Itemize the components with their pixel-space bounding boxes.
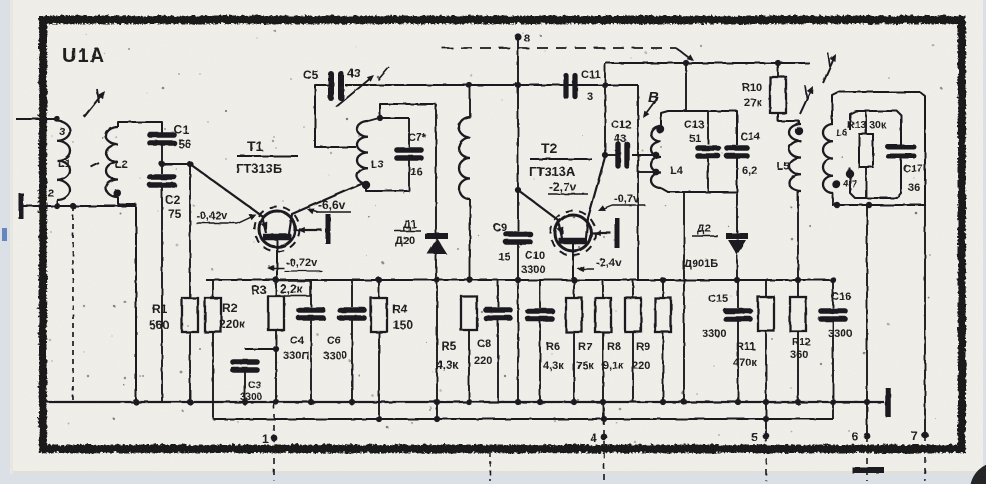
inductor L6 <box>823 124 833 193</box>
wire base slant T1 <box>190 164 266 233</box>
node C3 junction <box>273 346 279 352</box>
polarity dot L5 <box>795 127 803 135</box>
node L3 top <box>377 115 383 121</box>
node R10 top <box>775 60 781 66</box>
wire C5 branch <box>315 85 356 147</box>
wire tank3 inner <box>850 111 901 145</box>
wire emitter T2 <box>592 232 611 234</box>
inductor L2 <box>106 127 118 197</box>
wire tank3 down <box>866 205 868 436</box>
resistor R9 <box>662 280 664 298</box>
wire base slant T2 <box>518 190 562 238</box>
resistor R7 <box>602 280 604 298</box>
wire tank3 frame <box>832 92 925 205</box>
diode D1 <box>425 233 448 239</box>
capacitor C6 <box>351 280 353 307</box>
wire mid rail left <box>206 279 833 281</box>
rail B junction dots <box>376 416 769 422</box>
blue mark on left margin <box>2 228 7 241</box>
node R4 top <box>376 277 382 283</box>
wire input bottom <box>21 205 136 207</box>
tuning arrow L6 <box>823 56 835 83</box>
wire x638 vertical <box>637 85 639 280</box>
wire main rail <box>345 84 638 86</box>
pin 1 <box>271 435 278 442</box>
capacitor C3 <box>233 359 257 365</box>
node L4 mid <box>653 152 660 159</box>
paper edge shading left <box>10 0 13 474</box>
capacitor C12 <box>605 154 616 156</box>
capacitor C11 <box>563 76 568 97</box>
resistor R12 <box>797 191 799 297</box>
ground rail B <box>213 418 833 420</box>
resistor R3 <box>275 280 277 296</box>
wire collector slant T2 <box>586 157 605 238</box>
node tank2 Bplus <box>683 60 689 66</box>
wire tank1 bottom <box>366 185 409 191</box>
wire tank1 top <box>380 104 436 118</box>
polarity dot L2 <box>113 189 121 197</box>
tick between L1 L2 <box>91 163 99 167</box>
tuning arrow L5 <box>800 88 812 114</box>
resistor R11 <box>765 280 767 297</box>
ground bar right <box>885 388 891 417</box>
node x605 rail <box>602 82 608 88</box>
capacitor C9 <box>506 231 530 237</box>
capacitor C16 <box>832 280 834 308</box>
emitter bar T2 <box>615 218 620 248</box>
node L1 bottom <box>54 203 60 209</box>
wire R7 to rail B <box>603 402 604 419</box>
wire tank2 Bplus <box>685 63 687 111</box>
diode D2 <box>726 233 748 239</box>
capacitor C14 <box>727 145 747 151</box>
wire D1 vertical <box>435 104 437 233</box>
transistor T1 <box>259 211 295 247</box>
resistor R5 <box>461 296 477 330</box>
transistor T2 <box>555 215 591 251</box>
node L5 chain <box>795 277 801 283</box>
wire C7 top <box>380 117 409 119</box>
node R9 top <box>660 277 666 283</box>
wire top rail <box>605 62 810 64</box>
node R3 top <box>273 277 279 283</box>
scan specks <box>49 30 943 443</box>
inductor mid choke <box>469 85 471 117</box>
node base T2 <box>515 187 521 193</box>
wire L1 dashed down <box>72 206 74 402</box>
polarity dot L4 <box>656 125 664 133</box>
ground bar below pin6 <box>852 467 884 473</box>
wire tank2 down <box>683 192 685 402</box>
wire C1C2 tap <box>162 163 190 165</box>
wire D1 down <box>436 280 438 419</box>
node C16 top <box>830 277 836 283</box>
pin 6 <box>864 433 871 440</box>
wire input top <box>16 118 57 120</box>
resistor R13 <box>865 111 867 134</box>
wire R1 vertical <box>189 164 191 298</box>
ground rail A <box>45 401 884 403</box>
capacitor C7 <box>408 118 410 147</box>
wire emitter T1 <box>296 229 322 231</box>
resistor R10 <box>777 63 779 77</box>
node C12 junction <box>602 152 608 158</box>
capacitor C15 <box>737 280 739 308</box>
node base T1 <box>187 161 193 167</box>
resistor R1 <box>182 298 198 332</box>
dashed screen line <box>442 47 676 49</box>
wire collector slant T1 <box>289 182 366 234</box>
resistor R4 <box>378 280 380 298</box>
capacitor C8 <box>497 280 499 307</box>
polarity dot L7 <box>846 170 854 178</box>
node tank3 bottom <box>834 202 840 208</box>
wire node8 down <box>517 37 519 231</box>
tuning arrow L1 <box>84 93 103 117</box>
node C10 tap <box>515 277 521 283</box>
wire tank3 right down <box>924 205 926 435</box>
stub below border <box>489 452 491 481</box>
wire D2 vertical <box>736 192 738 234</box>
wire C3 jog <box>245 348 276 350</box>
resistor R6 <box>573 280 575 298</box>
corner dark button <box>970 462 986 484</box>
node R5 top <box>467 277 473 283</box>
node D2 bottom <box>734 277 740 283</box>
capacitor C13 <box>707 111 709 144</box>
ground input <box>19 193 24 219</box>
capacitor C10 <box>539 280 541 308</box>
node 8 <box>514 33 521 40</box>
node input top <box>54 116 60 122</box>
capacitor C5 trimmer <box>328 74 334 98</box>
emitter bar T1 <box>326 214 331 244</box>
pin 4 <box>601 434 608 441</box>
polarity dot L6 <box>832 180 840 188</box>
wire L2 down <box>135 204 137 402</box>
capacitor C1 <box>150 132 174 138</box>
pin 5 <box>763 433 770 440</box>
resistor R2 <box>212 280 214 298</box>
wire tank2 frame <box>661 111 737 145</box>
node choke top <box>466 82 472 88</box>
capacitor C4 <box>310 280 312 307</box>
capacitor C17 <box>888 145 914 150</box>
inductor L5 <box>789 124 801 191</box>
node D1 bottom <box>434 277 440 283</box>
resistor R8 <box>632 280 634 298</box>
pin 7 <box>922 432 929 439</box>
capacitor C2 <box>150 174 174 180</box>
polarity dot L3 <box>362 181 370 189</box>
node C1-C2 <box>159 161 165 167</box>
inductor L1 <box>57 121 70 200</box>
paper edge shading bottom <box>10 471 983 474</box>
node x518 rail <box>515 82 521 88</box>
inductor L3 <box>357 121 368 184</box>
inductor L4 <box>651 126 661 188</box>
wire top rail corner <box>604 63 606 155</box>
node R6 top <box>571 277 577 283</box>
rail A junction dots <box>133 399 870 405</box>
